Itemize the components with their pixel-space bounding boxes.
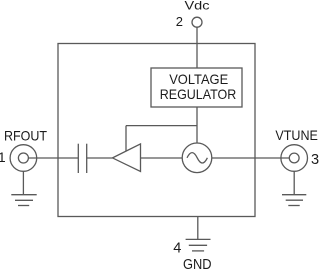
wire RFOUT to ground xyxy=(22,171,24,194)
wire VTUNE to ground xyxy=(293,171,295,194)
terminal 3 VTUNE connector xyxy=(281,145,308,172)
wire oscillator to VTUNE terminal xyxy=(212,157,289,159)
svg-text:1: 1 xyxy=(0,149,6,165)
svg-text:2: 2 xyxy=(176,14,183,29)
voltage regulator U1 box xyxy=(151,68,242,107)
svg-text:Vdc: Vdc xyxy=(185,0,210,13)
svg-text:RFOUT: RFOUT xyxy=(4,129,47,144)
module outline box xyxy=(58,44,255,217)
terminal 2 Vdc circle xyxy=(192,17,202,27)
wire oscillator to amplifier xyxy=(141,157,183,159)
ground under RFOUT xyxy=(11,194,36,196)
svg-text:REGULATOR: REGULATOR xyxy=(160,86,237,102)
terminal 1 RFOUT connector xyxy=(10,145,37,172)
svg-text:4: 4 xyxy=(173,240,181,256)
wire amplifier to capacitor xyxy=(87,157,113,159)
ground under VTUNE xyxy=(282,194,306,196)
svg-text:3: 3 xyxy=(311,152,319,168)
oscillator sine wave xyxy=(187,153,207,163)
wire branch horizontal xyxy=(126,125,197,127)
wire regulator to oscillator xyxy=(196,107,198,144)
ground GND pad 4 xyxy=(186,238,211,240)
wire box to GND pad xyxy=(197,217,199,240)
capacitor C1 plates xyxy=(77,144,79,173)
svg-text:VTUNE: VTUNE xyxy=(275,128,318,143)
wire branch to amplifier xyxy=(125,126,127,152)
wire capacitor to RFOUT terminal xyxy=(28,157,78,159)
svg-text:GND: GND xyxy=(183,257,212,270)
oscillator G1 circle xyxy=(182,143,212,173)
wire Vdc to regulator xyxy=(196,27,198,68)
svg-text:VOLTAGE: VOLTAGE xyxy=(169,71,228,87)
amplifier A1 triangle xyxy=(113,144,141,172)
